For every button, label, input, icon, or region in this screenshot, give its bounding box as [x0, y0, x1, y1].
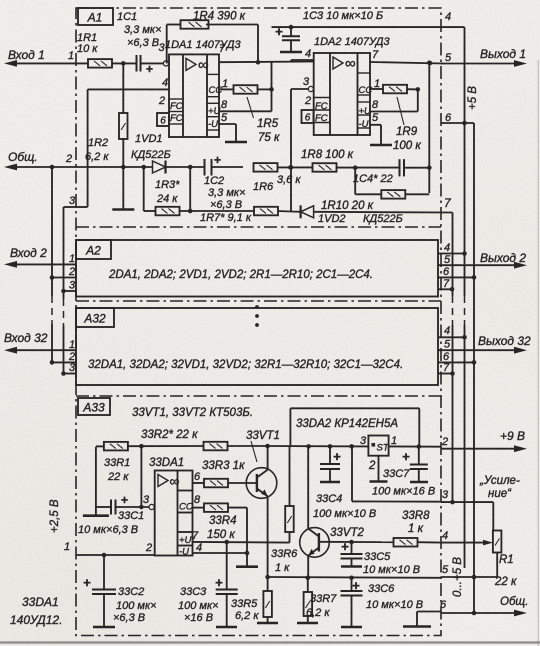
- inverting input circle DA1.3: [163, 61, 168, 66]
- resistor 1R9: [383, 85, 421, 152]
- bus 430 vertical: [428, 63, 430, 193]
- node dot A32 pin6: [472, 360, 477, 365]
- regulator label: [296, 418, 398, 430]
- wire A2 pin3: [64, 280, 77, 292]
- node dot 33C7: [417, 444, 422, 449]
- wire Вход 1: [4, 60, 88, 67]
- wire 1R9 to DA2.8: [359, 89, 418, 117]
- node dot 33C5 top: [349, 540, 354, 545]
- FC select box 6 DA2: [302, 110, 314, 124]
- wire A33 pin6: [417, 599, 447, 612]
- wire R1 top: [492, 502, 494, 530]
- input label Вход 32: [4, 331, 48, 345]
- op-amp U 1DA2: [314, 36, 391, 135]
- wire 1R6 to 1R8: [278, 166, 313, 168]
- resistor 33R3: [202, 460, 245, 487]
- wire 33R8 to pin4: [418, 541, 442, 543]
- node dot 33C4: [328, 444, 333, 449]
- capacitor 33C3: [178, 542, 238, 627]
- pin 7 label A1: [444, 196, 452, 210]
- capacitor 1C2: [204, 153, 246, 211]
- resistor 33R6: [271, 506, 298, 574]
- node dot VT1 emitter: [265, 575, 270, 580]
- capacitor 33C7: [372, 447, 435, 498]
- regulator frame box: [290, 408, 419, 446]
- pin 1 label A1: [68, 50, 74, 62]
- wire DA2.5 to ground: [359, 112, 382, 130]
- node dot Общ bus: [50, 165, 55, 170]
- node dot Общ bus466: [472, 577, 477, 615]
- wire 33C1 to DA1.3: [116, 506, 149, 508]
- ground 33R5: [257, 617, 278, 623]
- chip label bottom left: [10, 595, 62, 627]
- resistor 33R8: [394, 510, 431, 547]
- wire Общ to 1VD1: [123, 166, 152, 168]
- capacitor 33C5: [341, 539, 421, 576]
- node dot 290: [288, 165, 293, 170]
- ellipsis dots: [255, 305, 259, 327]
- riser to lower wire: [144, 167, 155, 211]
- pin 3 label A1: [69, 195, 76, 207]
- capacitor 33C6: [341, 578, 424, 627]
- potentiometer R1: [493, 531, 529, 609]
- ground 33C7: [410, 481, 428, 484]
- capacitor 1C4: [353, 159, 404, 185]
- resistor 1R5: [234, 85, 280, 144]
- op-amp U 1DA1: [165, 39, 241, 137]
- ground 33C2: [93, 626, 115, 629]
- wire 33DA1.6: [193, 471, 205, 483]
- wire 1R4 right: [206, 25, 258, 63]
- page right edge faint line: [537, 60, 539, 646]
- node dot VT2 collector: [306, 444, 311, 449]
- block A32 rect: [76, 308, 438, 385]
- wire 33R1 to 33R2: [128, 445, 204, 447]
- wire DA2.1 to 1R9: [370, 88, 383, 90]
- node dot A32 pin3: [61, 371, 66, 376]
- resistor 33R1: [96, 442, 130, 483]
- wire 1VD2 to pin7: [314, 211, 453, 214]
- wire 1R8 to 1C4: [337, 167, 400, 169]
- wire 1R3 to 1R7: [180, 210, 255, 212]
- outer device frame (dash-dot): [76, 8, 441, 636]
- block A2 text: [108, 269, 373, 281]
- wire Общ.: [4, 164, 123, 171]
- node dot 1R5 right: [258, 87, 274, 92]
- wire A32 pin7: [438, 362, 453, 374]
- riser 190: [189, 167, 191, 211]
- ground 33C5: [341, 562, 362, 567]
- node dot A2 pin3: [61, 289, 66, 294]
- block label A33: [78, 398, 110, 415]
- capacitor 33C1: [78, 493, 144, 536]
- wire A2 pin7: [438, 278, 452, 290]
- node dot 355: [353, 165, 358, 170]
- resistor 1R7: [200, 207, 278, 224]
- capacitor 1C3: [275, 10, 383, 52]
- A33 transistors text: [132, 407, 253, 419]
- resistor 1R8: [301, 149, 354, 172]
- FC labels DA1: [158, 95, 183, 124]
- node dot 141: [139, 444, 144, 449]
- resistor 1R2: [85, 63, 128, 167]
- bus 63 dashed gap: [63, 291, 65, 374]
- wire 33C1 row: [96, 506, 111, 508]
- compartment separator A2/A32: [76, 300, 441, 302]
- ground 1R2: [112, 167, 134, 210]
- resistor 33R5: [231, 577, 272, 622]
- resistor 1R6: [253, 163, 301, 193]
- wire Общ out: [441, 610, 527, 617]
- node dot 247: [245, 551, 250, 556]
- pin 2 label A1: [65, 153, 72, 165]
- ground 33C3: [216, 626, 237, 629]
- resistor 1R3: [155, 179, 180, 215]
- output Выход 32: [438, 334, 531, 354]
- wire A32 pin2: [52, 351, 76, 363]
- feedback riser 1R4 left: [167, 25, 180, 64]
- wire 1C4 right: [404, 167, 429, 169]
- ST pin2 ground: [370, 456, 388, 482]
- block label A32: [76, 308, 114, 327]
- page edge line: [0, 641, 540, 643]
- op-amp U 33DA1: [149, 457, 193, 556]
- wire 1VD1 to 1C2: [166, 166, 205, 168]
- block A2 rect: [76, 240, 438, 297]
- input label Вход 1: [8, 48, 45, 62]
- +5 В label: [467, 86, 479, 110]
- left rail riser: [95, 447, 97, 507]
- input label Общ.: [8, 150, 38, 164]
- wire DA1.8: [208, 99, 272, 117]
- 33R6 drop from rail: [289, 446, 291, 506]
- inverting input circle 33DA1.3: [143, 494, 154, 510]
- node dot after diode: [188, 165, 193, 170]
- node dot DA2 out: [428, 61, 433, 66]
- compartment separator A1/A2: [76, 226, 441, 228]
- emitter wire row: [268, 576, 441, 579]
- resistor 1R10: [321, 190, 405, 212]
- wire ST out: [389, 445, 441, 447]
- wire A1 pin3 to bus: [64, 206, 77, 208]
- output Выход 1: [441, 47, 527, 67]
- wire 33R3 to VT1 base: [228, 482, 257, 484]
- output Выход 2: [438, 251, 527, 269]
- ground 33C6: [341, 626, 362, 629]
- node dot A32 pin7: [450, 371, 455, 376]
- node dot 1R4/out: [256, 60, 261, 65]
- wire A33 pin1: [64, 541, 155, 555]
- capacitor 33C4: [313, 446, 376, 520]
- node dot A2 pin2: [50, 275, 55, 280]
- node dot A2 pin4: [462, 251, 467, 256]
- wire A33 pin5: [441, 564, 474, 577]
- wire Вход 2: [4, 253, 76, 268]
- diode 1VD2: [291, 205, 403, 225]
- node dot A2 pin7: [450, 287, 455, 292]
- node dot A32 pin4: [462, 335, 467, 340]
- resistor 1R4: [181, 11, 246, 29]
- wire rail right: [268, 445, 369, 447]
- inverting input circle DA2.3: [303, 76, 314, 92]
- +5V bus corner: [443, 27, 465, 296]
- block label A1: [78, 8, 113, 25]
- node dot bus466 pin6: [462, 121, 467, 126]
- wire A32 pin3: [64, 362, 77, 374]
- lower wire 1R3 row: [154, 210, 157, 212]
- wire A2 pin4: [438, 242, 465, 254]
- pin 4 wire DA1: [88, 77, 169, 89]
- bus 477 vertical: [473, 123, 475, 577]
- node dot VT1 collector: [265, 444, 270, 449]
- wire 1R7 to bus291: [277, 210, 291, 213]
- capacitor 33C2: [83, 555, 156, 627]
- resistor 1R1: [77, 32, 112, 68]
- wire A32 pin6: [438, 351, 474, 363]
- node dot 1R2 bottom: [121, 165, 126, 170]
- node dot 1C3: [289, 25, 294, 30]
- node dot 351: [349, 444, 354, 449]
- node dot 33C3 top: [224, 540, 229, 545]
- wire DA1.7 output: [219, 43, 314, 62]
- bus 52 dashed gap: [51, 278, 53, 363]
- transistor Q 33VT1: [246, 430, 280, 577]
- resistor 33R2: [204, 442, 228, 451]
- CC +U -U labels 33DA1: [179, 502, 193, 558]
- node dot lower 190: [188, 209, 193, 214]
- regulator U 33DA2 ST box: [360, 435, 397, 472]
- pin 6 label A1: [445, 112, 452, 124]
- node dot riser 143: [141, 165, 146, 170]
- wire VT2 base: [319, 541, 394, 543]
- wire A2 pin2: [52, 266, 76, 278]
- bus pin3 down: [63, 207, 65, 291]
- 0...+5 В label: [452, 557, 464, 597]
- wire 33DA1.4: [193, 552, 248, 554]
- wire DA2.7 output: [370, 49, 443, 64]
- wire A33 pin4 wiper: [441, 530, 493, 545]
- node dot A32 pin2: [50, 360, 55, 365]
- wire 33DA1.7: [192, 530, 290, 554]
- resistor 33R4: [204, 503, 237, 541]
- node dot 141 low: [139, 505, 144, 510]
- ground 33R7: [297, 616, 318, 623]
- wire DA1.5 to ground: [208, 112, 236, 130]
- wire A32 pin4: [438, 325, 465, 337]
- node dot 33C6 top: [349, 576, 354, 581]
- wire 33R2 to VT1: [228, 445, 268, 447]
- bus Общ down: [51, 167, 53, 278]
- pin 3 riser A1: [76, 89, 88, 207]
- node dot A2 pin6: [472, 275, 477, 280]
- capacitor 1C1: [117, 11, 162, 76]
- wire DA2.4: [291, 48, 314, 62]
- node dot 33R7 top: [306, 576, 311, 581]
- bus 452 vertical: [452, 213, 454, 503]
- block A32 text: [88, 359, 403, 371]
- ground DA1.5: [225, 124, 247, 142]
- wire pin4 +5V row: [272, 26, 444, 28]
- wire +9V: [441, 429, 527, 452]
- resistor 33R7: [304, 578, 338, 619]
- wire A2 pin6: [438, 266, 474, 278]
- wire DA1.1 to 1R5: [219, 88, 233, 90]
- bus 466 dashed gap: [464, 296, 466, 568]
- FC labels DA2: [304, 95, 328, 124]
- wire pin6 row: [441, 122, 474, 124]
- node dot 291: [289, 165, 294, 170]
- FC select box 6 DA1: [157, 113, 169, 127]
- pin 5 label A1: [445, 52, 452, 64]
- CC label DA2: [359, 78, 381, 96]
- wire 33DA1.8: [193, 494, 205, 508]
- bus 291 vertical: [290, 89, 292, 212]
- loop 1R10 under 1C4: [355, 168, 429, 195]
- transistor Q 33VT2: [300, 446, 365, 577]
- wire A33 pin3: [441, 489, 493, 502]
- node dot 1R1/1R2: [121, 61, 126, 66]
- wire 1R1 to 1C1: [112, 62, 136, 64]
- riser 141: [140, 446, 142, 507]
- block label A2: [76, 240, 111, 259]
- 33R2 label: [141, 429, 198, 441]
- wire R1 bottom: [474, 552, 497, 577]
- ground DA2.5: [370, 125, 392, 145]
- compartment separator A32/A33: [76, 395, 441, 397]
- ground 33C1 node: [83, 507, 109, 516]
- pin 4 label A1: [445, 11, 451, 23]
- pin 3 label DA1: [159, 42, 166, 54]
- Усиление label: [479, 475, 520, 500]
- riser 1R5 node: [271, 62, 273, 111]
- ground 247: [236, 553, 258, 567]
- wire 33R4 right: [228, 508, 247, 553]
- diode 1VD1: [131, 133, 171, 174]
- wire 1C1 to op-amp pin3: [141, 62, 164, 64]
- node dot 429: [427, 165, 432, 170]
- +2,5 В label: [49, 499, 61, 533]
- ground A33 pin6: [403, 612, 431, 627]
- node dot R1 bottom: [472, 575, 477, 580]
- node dot 1R9 right: [407, 87, 420, 92]
- input label Вход 2: [10, 246, 47, 260]
- CC label DA1: [209, 78, 229, 96]
- node dot 33C2 top: [102, 553, 107, 558]
- wire Вход 32: [4, 339, 76, 354]
- node dot 430 top: [427, 61, 432, 66]
- wire DA2.3: [291, 88, 309, 90]
- wire 1C2 to 1R6: [212, 166, 244, 168]
- node dot pin3 bus452: [450, 500, 455, 505]
- wire rail to pin3 Усиление: [352, 446, 441, 501]
- ground 33C4: [320, 476, 340, 482]
